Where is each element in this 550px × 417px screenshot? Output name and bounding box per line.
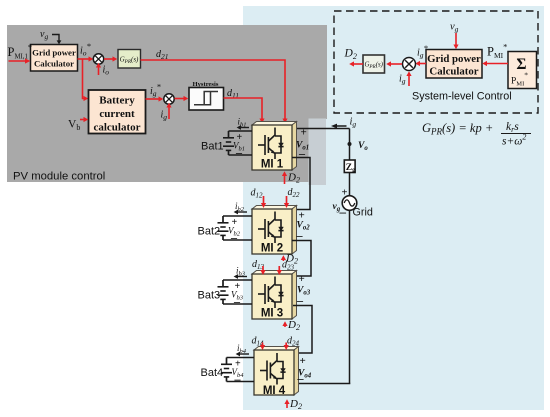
control input d12 arrow MI 2 xyxy=(261,196,266,208)
svg-text:MI 3: MI 3 xyxy=(261,308,283,320)
control input d23 arrow MI 3 xyxy=(277,266,282,275)
svg-text:–: – xyxy=(297,372,305,386)
block sum of PMI* xyxy=(508,52,537,89)
transistor IGBT inside MI 3 xyxy=(258,277,284,309)
svg-text:System-level Control: System-level Control xyxy=(412,91,512,103)
current arrow ib4 xyxy=(236,352,249,357)
wire X1 to GPR block xyxy=(104,58,113,60)
multiplier X2 xyxy=(164,94,174,104)
control input d14 arrow MI 4 xyxy=(260,343,265,351)
impedance Zg box xyxy=(344,160,356,174)
formula GPR(s) = kp + kr s / (s + w2) xyxy=(422,121,531,148)
wire grid branch lower segment xyxy=(349,210,351,383)
wire MI 1 output plus to grid node (ig wire) xyxy=(292,128,350,130)
micro-inverter MI 3 xyxy=(252,271,297,320)
battery Bat4 xyxy=(201,358,255,382)
wire GPR to D2 output xyxy=(353,63,363,65)
multiplier X1 xyxy=(93,54,103,64)
svg-text:Bat4: Bat4 xyxy=(201,367,224,379)
wire Grid power Calculator to multiplier X3 xyxy=(419,63,426,65)
transistor IGBT inside MI 4 xyxy=(260,353,286,385)
wire X2 to Hystresis xyxy=(175,98,185,100)
wire vg into Grid power Calculator (system) xyxy=(455,33,457,45)
wire Battery current calculator to multiplier X2 xyxy=(146,98,160,100)
wire d21 from GPR to MI 1 xyxy=(141,60,286,119)
svg-text:–: – xyxy=(234,372,242,386)
transistor IGBT inside MI 2 xyxy=(258,212,284,244)
wire branch io* down to Battery current calculator xyxy=(83,59,85,99)
current arrow ib3 xyxy=(234,274,247,279)
background gray-blue sliver right of gray panel xyxy=(309,119,327,186)
svg-text:Grid: Grid xyxy=(353,207,373,219)
svg-text:Bat3: Bat3 xyxy=(198,290,221,302)
multiplier X3 xyxy=(403,58,416,71)
wire PMI,1* to Grid power Calculator xyxy=(9,60,27,62)
svg-text:–: – xyxy=(235,146,243,160)
wire ig feedback into X3 xyxy=(408,75,410,86)
svg-text:current: current xyxy=(99,108,135,120)
wire grid branch Zg to source xyxy=(349,173,351,196)
control input D2 arrow MI 4 xyxy=(284,399,289,408)
block Grid power Calculator (system) xyxy=(426,50,482,79)
svg-text:Bat1: Bat1 xyxy=(201,141,224,153)
svg-text:MI 1: MI 1 xyxy=(261,159,284,171)
svg-text:Battery: Battery xyxy=(99,95,135,107)
wire d11 from Hystresis to MI 1 xyxy=(224,98,263,119)
control input D2 arrow MI 1 xyxy=(282,171,287,184)
block Hystresis xyxy=(189,81,224,110)
AC source Grid xyxy=(342,196,357,211)
wire sum box to Grid power Calculator (system) xyxy=(486,63,508,65)
transistor IGBT inside MI 1 xyxy=(258,128,284,160)
current arrow ib1 xyxy=(237,125,249,130)
svg-text:+: + xyxy=(301,127,307,139)
wire ig feedback into X2 xyxy=(168,107,170,120)
battery Bat1 xyxy=(201,131,252,155)
control input D2 arrow MI 3 xyxy=(282,321,287,327)
svg-text:–: – xyxy=(233,295,241,309)
background light blue panel xyxy=(243,6,544,410)
svg-text:–: – xyxy=(339,204,347,219)
wire MI 3 minus to MI 4 plus xyxy=(293,306,312,354)
block GPR(s) (system) xyxy=(363,55,385,73)
current arrow ib2 xyxy=(234,210,247,215)
current arrow ig on top wire xyxy=(331,124,347,129)
svg-text:Calculator: Calculator xyxy=(429,66,478,78)
wire MI 1 minus to MI 2 plus xyxy=(292,158,310,210)
svg-text:calculator: calculator xyxy=(93,122,140,134)
wire MI 4 output minus to grid branch xyxy=(295,383,350,385)
System-level Control dashed box xyxy=(334,11,538,113)
background gray panel (PV module control) upper xyxy=(7,25,327,119)
micro-inverter MI 1 xyxy=(252,122,297,171)
svg-text:MI 4: MI 4 xyxy=(263,385,286,397)
node Vo junction dot xyxy=(348,142,352,146)
wire vg to Grid power Calculator xyxy=(52,35,59,42)
block GPR(s) (PV) xyxy=(118,50,141,69)
micro-inverter MI 2 xyxy=(252,206,297,255)
svg-text:+: + xyxy=(300,355,306,367)
control input d22 arrow MI 2 xyxy=(284,196,289,208)
svg-text:MI 2: MI 2 xyxy=(261,243,283,255)
wire Vb into Battery current calculator xyxy=(80,119,84,121)
control input d24 arrow MI 4 xyxy=(284,343,289,351)
control input D2 arrow MI 2 xyxy=(281,255,286,261)
svg-text:Grid power: Grid power xyxy=(32,48,76,58)
block Battery current calculator xyxy=(89,90,146,134)
wire MI 2 minus to MI 3 plus xyxy=(292,241,311,277)
svg-text:–: – xyxy=(298,147,306,161)
svg-text:–: – xyxy=(230,231,238,245)
svg-text:Grid power: Grid power xyxy=(427,53,481,65)
background gray panel (PV module control) lower xyxy=(7,119,311,182)
svg-text:Calculator: Calculator xyxy=(34,59,74,69)
wire Grid power Calculator to multiplier X1 xyxy=(78,58,90,60)
control input d13 arrow MI 3 xyxy=(260,266,265,275)
battery Bat3 xyxy=(198,280,253,304)
wire io feedback into X1 xyxy=(98,67,100,76)
svg-text:Bat2: Bat2 xyxy=(198,226,221,238)
wire X3 to GPR (system) xyxy=(390,63,402,65)
battery Bat2 xyxy=(198,216,253,240)
svg-text:PV module control: PV module control xyxy=(13,171,105,183)
svg-text:+: + xyxy=(299,273,305,285)
micro-inverter MI 4 xyxy=(254,347,299,398)
wire grid branch upper segment xyxy=(349,129,351,161)
block Grid power Calculator (PV) xyxy=(31,45,78,72)
